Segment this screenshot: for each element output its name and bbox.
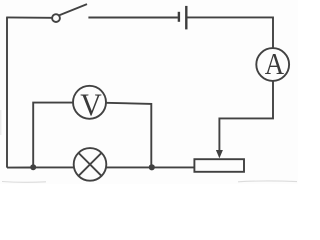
- ammeter A1: [256, 47, 289, 81]
- rheostat R1: [194, 159, 244, 172]
- wire battery to ammeter: [187, 17, 273, 48]
- lamp L1: [74, 148, 107, 181]
- svg-text:A: A: [265, 47, 285, 81]
- rheostat R1 wiper arrow: [216, 150, 223, 158]
- svg-text:V: V: [80, 87, 101, 123]
- wire bottom-left corner: [7, 167, 33, 169]
- wire voltmeter right branch: [106, 103, 151, 168]
- wire rheostat left lead: [152, 166, 195, 168]
- switch S1: [52, 4, 87, 22]
- battery B1: [179, 6, 186, 30]
- wire switch to battery: [88, 17, 177, 19]
- wire top-left horizontal: [6, 16, 51, 18]
- wire left vertical: [6, 17, 8, 167]
- wire ammeter to rheostat wiper: [219, 81, 273, 151]
- voltmeter V1: [73, 86, 106, 123]
- node B junction dot: [149, 164, 155, 170]
- scan smudge bottom edge (decorative): [1, 110, 297, 182]
- wire voltmeter left branch: [33, 103, 73, 168]
- node A junction dot: [30, 164, 36, 170]
- wire bottom lamp-right to node B: [106, 166, 152, 168]
- wire bottom node A to lamp-left: [33, 166, 74, 168]
